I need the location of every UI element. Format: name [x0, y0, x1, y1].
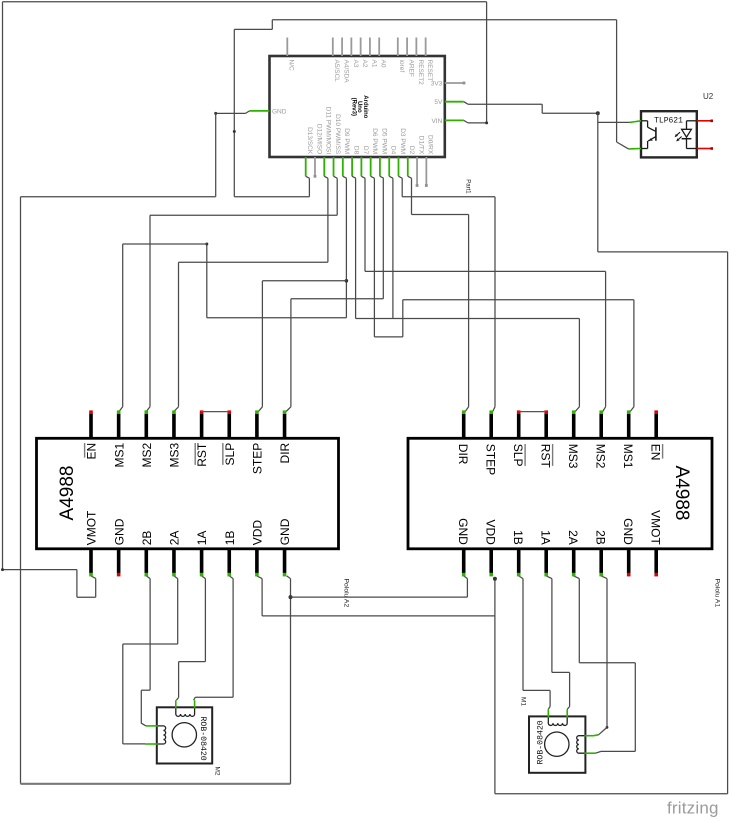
- pin ~RST (top): [200, 414, 204, 440]
- pin A0: [378, 38, 380, 57]
- pin VMOT (bottom): [654, 548, 658, 573]
- wire Arduino GND net: [246, 111, 250, 114]
- pin A3: [350, 38, 352, 57]
- svg-text:DIR: DIR: [456, 444, 470, 465]
- pin ~EN (top): [89, 414, 93, 440]
- wire branch to STEP-L: [345, 279, 349, 283]
- pin D2: [407, 157, 409, 176]
- pin 4 opto (red stub): [697, 120, 712, 122]
- pin STEP (top): [255, 414, 259, 440]
- pin D3 PWM: [398, 157, 400, 176]
- wire D10 to MS2-L: [336, 178, 338, 215]
- svg-text:2B: 2B: [594, 530, 608, 545]
- pin 1B (bottom): [227, 548, 231, 573]
- svg-text:Pololu A2: Pololu A2: [343, 579, 350, 608]
- pin 2B (bottom): [599, 548, 603, 573]
- svg-text:VDD: VDD: [251, 520, 265, 546]
- wire GND-L pin jog: [287, 576, 291, 579]
- light arrows: [675, 132, 680, 136]
- wire 1A-R to M1 coil: [546, 576, 552, 579]
- wire 1B-R to M1 coil: [519, 576, 523, 579]
- svg-text:RST: RST: [539, 444, 553, 469]
- pin GND (bottom): [283, 548, 287, 573]
- inductor coil M2 left: [157, 726, 166, 744]
- pin ~SLP (top): [227, 414, 231, 440]
- pin VMOT (bottom): [89, 548, 93, 573]
- svg-text:RST: RST: [195, 442, 209, 467]
- pin ~EN (top): [654, 414, 658, 440]
- pin N/C: [286, 38, 288, 57]
- svg-text:MS2: MS2: [594, 444, 608, 469]
- pin GND (bottom): [117, 548, 121, 573]
- wire GND tie to right A4988: [291, 596, 468, 598]
- svg-text:D9 PWM: D9 PWM: [343, 128, 350, 154]
- svg-text:MS1: MS1: [621, 444, 635, 469]
- pin MS3 (top): [172, 414, 176, 440]
- wire 2B-R to M1 coil: [601, 576, 607, 579]
- wire D9 to MS1-L: [345, 178, 347, 318]
- pin 3V3: [445, 82, 464, 84]
- inductor coil M1 top: [548, 716, 567, 725]
- pin M1 coil B1: [584, 735, 593, 737]
- pin D7: [360, 157, 362, 176]
- wire D6 to MS1-R: [373, 178, 375, 337]
- wire 1B-L to M2 coil: [229, 576, 233, 579]
- wire 5V down right side to VDDs: [598, 251, 728, 253]
- wire 5V net from Arduino 5V: [468, 103, 542, 105]
- pin ioref: [397, 38, 399, 57]
- svg-text:A3: A3: [352, 60, 359, 68]
- svg-text:D5 PWM: D5 PWM: [380, 128, 387, 154]
- svg-text:D1/TX: D1/TX: [417, 136, 424, 155]
- Arduino Uno U1: [270, 56, 445, 157]
- wire D4 into MS3-R trunk: [392, 178, 394, 318]
- svg-text:Part1: Part1: [464, 179, 470, 194]
- pin 2A (bottom): [572, 548, 576, 573]
- wire 2B-L to M2 coil: [146, 576, 150, 579]
- svg-text:D7: D7: [362, 146, 369, 155]
- pin 5V: [445, 101, 464, 103]
- svg-text:STEP: STEP: [251, 443, 265, 474]
- svg-text:SLP: SLP: [511, 444, 525, 467]
- wire RST-SLP jumper: [519, 411, 547, 413]
- svg-text:D10 PWM/SS: D10 PWM/SS: [334, 114, 341, 155]
- pin D9 PWM: [342, 157, 344, 176]
- pin D8: [351, 157, 353, 176]
- svg-text:3V3: 3V3: [431, 80, 443, 87]
- wire 1A-L to M2 coil: [202, 576, 206, 579]
- svg-text:D8: D8: [353, 146, 360, 155]
- pin D11 PWM/MOSI: [323, 157, 325, 176]
- svg-text:D3 PWM: D3 PWM: [399, 128, 406, 154]
- wire GND bottom trunk: [21, 783, 291, 785]
- motor M2 ROB-08420: [157, 707, 212, 763]
- svg-text:D13/SCK: D13/SCK: [306, 127, 313, 155]
- svg-text:VMOT: VMOT: [85, 510, 99, 545]
- pin MS1 (top): [627, 414, 631, 440]
- wire D2 to DIR-R: [411, 178, 413, 214]
- pin M2 coil B1: [146, 725, 158, 727]
- svg-text:TLP621: TLP621: [654, 117, 683, 126]
- inductor coil M1 right: [577, 736, 586, 754]
- svg-text:VIN: VIN: [431, 118, 442, 125]
- LED inside opto: [686, 121, 688, 130]
- pin MS1 (top): [117, 414, 121, 440]
- svg-text:ROB-08420: ROB-08420: [198, 717, 207, 761]
- motor M1 ROB-08420: [529, 716, 585, 772]
- svg-text:EN: EN: [85, 443, 99, 460]
- A4988 driver Pololu A2 (left): [37, 438, 339, 549]
- wire VIN net: top + left edge: [3, 1, 487, 3]
- pin RESET2: [415, 38, 417, 57]
- pin A2: [360, 38, 362, 57]
- transistor inside opto: [641, 120, 648, 122]
- pin D1/TX: [416, 157, 418, 186]
- svg-text:M1: M1: [520, 697, 527, 706]
- svg-text:A4988: A4988: [671, 466, 692, 521]
- pin MS2 (top): [145, 414, 149, 440]
- svg-text:GND: GND: [621, 518, 635, 545]
- svg-text:A2: A2: [361, 60, 368, 68]
- node 5V junction: [596, 111, 600, 115]
- svg-text:A4/SDA: A4/SDA: [342, 60, 349, 84]
- svg-text:MS3: MS3: [566, 444, 580, 469]
- pin 3 opto (red stub): [697, 148, 712, 150]
- svg-text:Arduino: Arduino: [362, 95, 368, 118]
- wire VDD-L to VDD-R: [257, 576, 262, 579]
- wire 5V to opto pin1: [597, 113, 599, 252]
- pin 2A (bottom): [172, 548, 176, 573]
- wire D11 to MS3-L: [327, 178, 329, 262]
- pin M2 coil B2: [145, 743, 158, 745]
- svg-text:ROB-08420: ROB-08420: [536, 720, 545, 764]
- pin M1 coil A1: [547, 709, 549, 717]
- pin AREF: [406, 38, 408, 57]
- svg-text:RESET2: RESET2: [417, 60, 424, 86]
- wire D8 to MS3-R: [355, 178, 357, 318]
- pin STEP (top): [489, 414, 493, 440]
- svg-text:RESET: RESET: [426, 60, 433, 82]
- svg-text:A1: A1: [370, 60, 377, 68]
- pin ~RST (top): [544, 414, 548, 440]
- svg-text:1A: 1A: [539, 530, 553, 545]
- svg-text:A0: A0: [380, 60, 387, 68]
- pin ~SLP (top): [517, 414, 521, 440]
- svg-text:DIR: DIR: [278, 442, 292, 463]
- pin 2B (bottom): [145, 548, 149, 573]
- wire 2A-R to M1 coil: [574, 576, 580, 579]
- pin 2 opto (green): [629, 148, 642, 150]
- svg-text:N/C: N/C: [288, 60, 295, 72]
- svg-text:1B: 1B: [223, 531, 237, 546]
- svg-text:GND: GND: [278, 518, 292, 545]
- svg-text:MS3: MS3: [168, 442, 182, 467]
- pin VDD (bottom): [489, 548, 493, 573]
- svg-text:M2: M2: [214, 767, 221, 776]
- svg-text:D11 PWM/MOSI: D11 PWM/MOSI: [325, 107, 332, 155]
- wire opto pin2 net (D13): [272, 19, 616, 21]
- pin 1B (bottom): [517, 548, 521, 573]
- pin D5 PWM: [379, 157, 381, 176]
- svg-text:GND: GND: [112, 518, 126, 545]
- pin D12/MISO: [314, 157, 316, 176]
- pin A4/SDA: [341, 38, 343, 57]
- svg-text:2A: 2A: [168, 531, 182, 546]
- pin MS3 (top): [572, 414, 576, 440]
- svg-text:A5/SCL: A5/SCL: [333, 60, 340, 83]
- A4988 driver Pololu A1 (right): [408, 438, 712, 549]
- svg-text:Pololu A1: Pololu A1: [713, 579, 720, 608]
- svg-text:D0/RX: D0/RX: [427, 135, 434, 155]
- svg-text:MS1: MS1: [112, 442, 126, 467]
- pin D6 PWM: [370, 157, 372, 176]
- pin M1 coil A2: [566, 709, 568, 717]
- pin 1A (bottom): [200, 548, 204, 573]
- svg-text:SLP: SLP: [223, 443, 237, 466]
- pin VIN: [445, 119, 464, 121]
- pin M2 coil A1: [175, 700, 177, 708]
- wire VMOT-L to VIN net: [91, 576, 96, 579]
- svg-text:Uno: Uno: [356, 101, 362, 113]
- svg-text:VDD: VDD: [484, 519, 498, 545]
- svg-text:1A: 1A: [195, 531, 209, 546]
- pin 1A (bottom): [544, 548, 548, 573]
- pin D13/SCK: [305, 157, 307, 176]
- pin D4: [388, 157, 390, 176]
- svg-text:EN: EN: [649, 444, 663, 461]
- svg-text:VMOT: VMOT: [649, 510, 663, 545]
- svg-text:AREF: AREF: [407, 60, 414, 77]
- svg-text:MS2: MS2: [140, 442, 154, 467]
- pin RESET: [425, 38, 427, 57]
- pin GND (bottom): [462, 548, 466, 573]
- pin 1 opto (green): [630, 121, 642, 123]
- svg-text:D2: D2: [408, 146, 415, 155]
- pin M1 coil B2: [584, 752, 595, 754]
- svg-text:2A: 2A: [566, 530, 580, 545]
- svg-text:1B: 1B: [511, 530, 525, 545]
- pin DIR (top): [462, 414, 466, 440]
- svg-text:GND: GND: [456, 518, 470, 545]
- svg-text:ioref: ioref: [398, 60, 405, 73]
- svg-text:fritzing: fritzing: [667, 799, 719, 818]
- pin GND (bottom): [627, 548, 631, 573]
- svg-text:STEP: STEP: [484, 444, 498, 475]
- pin D0/RX: [425, 157, 427, 186]
- pin DIR (top): [283, 414, 287, 440]
- svg-text:GND: GND: [272, 108, 287, 115]
- wire RST-SLP jumper: [202, 411, 230, 413]
- node GND-L junction: [289, 595, 293, 599]
- wire D7 to MS2-R: [364, 178, 366, 271]
- wire D5 to DIR-L: [382, 178, 384, 299]
- wire D3 to STEP-R: [401, 178, 403, 197]
- pin D10 PWM/SS: [333, 157, 335, 176]
- node VDD-R junction: [493, 577, 497, 581]
- svg-text:2B: 2B: [140, 531, 154, 546]
- pin MS2 (top): [599, 414, 603, 440]
- svg-text:U2: U2: [703, 92, 714, 101]
- pin A5/SCL: [332, 38, 334, 57]
- inductor coil M2 top: [176, 707, 195, 716]
- svg-text:(Rev3): (Rev3): [350, 98, 356, 116]
- pin VDD (bottom): [255, 548, 259, 573]
- pin GND (left): [250, 110, 270, 112]
- pin M2 coil A2: [194, 700, 196, 708]
- svg-text:A4988: A4988: [57, 466, 78, 521]
- svg-text:5V: 5V: [434, 99, 443, 106]
- svg-text:D12/MISO: D12/MISO: [315, 124, 322, 154]
- svg-text:D6 PWM: D6 PWM: [371, 128, 378, 154]
- pin A1: [369, 38, 371, 57]
- svg-text:D4: D4: [390, 146, 397, 155]
- wire 2A-L to M2 coil: [174, 576, 178, 579]
- op-amp U2 optocoupler TLP621: [641, 111, 697, 157]
